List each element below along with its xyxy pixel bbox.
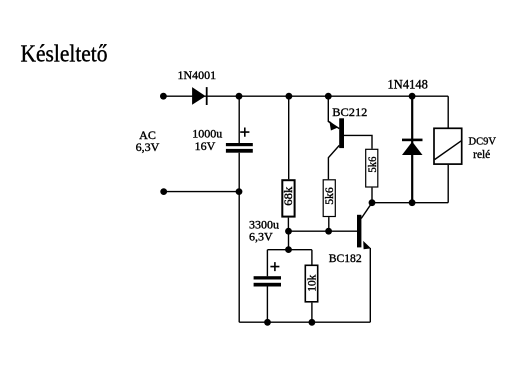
wire AC bottom lead bbox=[164, 191, 240, 193]
node junction base rail / 68k bbox=[285, 228, 292, 235]
svg-text:5k6: 5k6 bbox=[322, 187, 336, 205]
wire 68k leads bbox=[287, 96, 289, 231]
capacitor C2 3300u 6,3V bbox=[254, 276, 281, 286]
relay K1 bbox=[434, 128, 462, 164]
node junction top rail / C1 bbox=[236, 93, 243, 100]
node junction AC bottom / left vertical bbox=[236, 188, 243, 195]
svg-text:6,3V: 6,3V bbox=[136, 140, 160, 154]
svg-text:16V: 16V bbox=[195, 139, 216, 153]
wire right 5k6 bottom lead bbox=[371, 188, 373, 203]
wire BC212 emitter lead bbox=[328, 96, 339, 128]
resistor R4 10k bbox=[304, 265, 318, 302]
svg-text:BC182: BC182 bbox=[329, 251, 362, 265]
wire left 5k6 bottom lead bbox=[328, 217, 330, 231]
resistor R3 5k6 (right, base of BC212) bbox=[365, 149, 379, 187]
diode D2 1N4148 bbox=[402, 139, 423, 155]
node junction node X / 1N4148 bbox=[409, 199, 416, 206]
wire 1N4148 vertical bbox=[411, 96, 413, 203]
svg-text:Késleltető: Késleltető bbox=[21, 42, 108, 68]
wire BC182 collector lead bbox=[361, 203, 372, 219]
transistor Q2 BC182 (NPN) bbox=[357, 215, 371, 249]
wire relay top lead bbox=[447, 96, 449, 127]
svg-text:relé: relé bbox=[473, 149, 490, 161]
node junction top rail / BC212 emitter bbox=[325, 93, 332, 100]
node junction collector BC182 / node X bbox=[369, 199, 376, 206]
diode D1 1N4001 bbox=[192, 87, 208, 105]
wire left vertical through 1000u cap bbox=[238, 96, 240, 322]
wire relay bottom lead bbox=[447, 165, 449, 203]
svg-text:DC9V: DC9V bbox=[469, 136, 497, 148]
svg-text:BC212: BC212 bbox=[332, 105, 367, 119]
svg-text:68k: 68k bbox=[281, 187, 295, 206]
resistor R2 5k6 (left) bbox=[322, 180, 336, 217]
wire node B lower rail bbox=[267, 249, 312, 251]
node junction top rail / 1N4148 bbox=[409, 93, 416, 100]
wire BC212 base to right 5k6 bbox=[344, 135, 372, 148]
svg-text:10k: 10k bbox=[304, 275, 318, 292]
svg-text:1N4148: 1N4148 bbox=[388, 77, 428, 91]
capacitor C1 1000u 16V bbox=[226, 143, 253, 153]
node AC bottom terminal bbox=[160, 188, 167, 195]
node AC top terminal bbox=[160, 93, 167, 100]
node junction base rail / 5k6 bbox=[325, 228, 332, 235]
wire bottom rail bbox=[239, 321, 370, 323]
wire base rail of BC182 bbox=[288, 230, 357, 232]
wire BC212 collector lead bbox=[328, 145, 339, 179]
plus sign C2 bbox=[270, 262, 279, 271]
svg-text:1N4001: 1N4001 bbox=[178, 68, 217, 82]
wire node X rail bbox=[372, 202, 448, 204]
wire node B vertical bbox=[288, 231, 290, 249]
node junction bottom rail / 10k bbox=[309, 319, 316, 326]
plus sign C1 bbox=[240, 128, 249, 137]
svg-text:6,3V: 6,3V bbox=[249, 230, 273, 244]
wire BC182 emitter vertical bbox=[369, 248, 371, 322]
wire 10k leads bbox=[311, 250, 313, 323]
transistor Q1 BC212 (PNP) bbox=[329, 118, 344, 148]
node junction bottom rail / C2 bbox=[264, 319, 271, 326]
svg-text:5k6: 5k6 bbox=[365, 157, 379, 173]
node junction top rail / 68k bbox=[286, 93, 293, 100]
wire top rail bbox=[163, 95, 448, 97]
resistor R1 68k bbox=[281, 180, 295, 216]
wire 3300u cap leads bbox=[266, 250, 268, 323]
node junction lower rail bbox=[285, 246, 292, 253]
